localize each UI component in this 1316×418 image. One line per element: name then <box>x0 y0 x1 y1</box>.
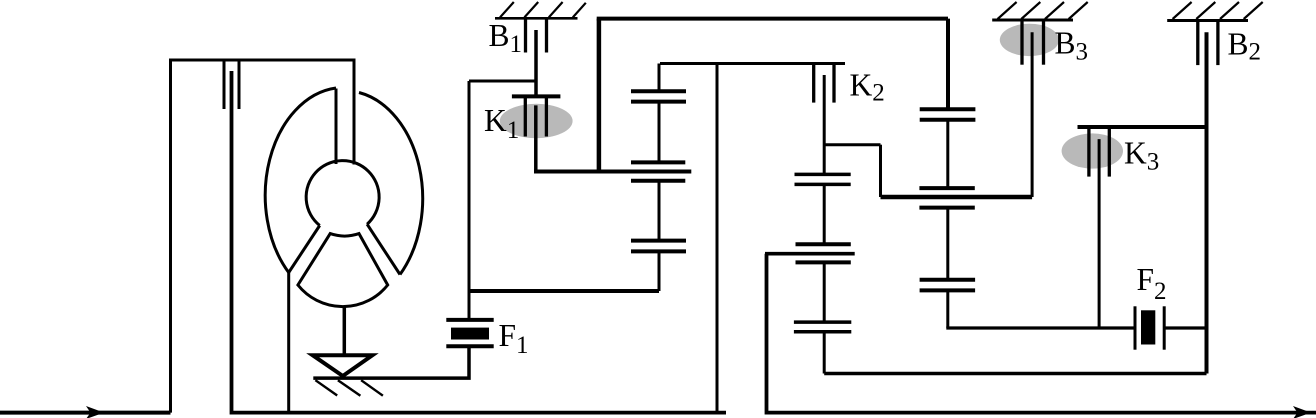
clutch K2 shaft second <box>823 184 826 244</box>
wire F2 line right <box>1164 326 1206 329</box>
clutch K2 shaft lower <box>823 332 826 374</box>
clutch K1 prongs <box>525 96 546 136</box>
planetary trio K2 mid line <box>765 252 855 256</box>
brake B3 shaded ellipse <box>1000 24 1059 56</box>
freewheel F1 top plate <box>446 318 493 322</box>
clutch K2 shaft third <box>823 262 826 322</box>
ground hatching over B1 <box>500 2 586 17</box>
clutch K1 shaded ellipse <box>500 104 573 138</box>
wire F2 line left <box>946 326 1135 329</box>
clutch K3 prongs <box>1089 127 1109 177</box>
gear pair 4 <box>920 109 976 120</box>
wire vertical x717 <box>716 64 719 412</box>
brake B1 prongs <box>526 18 547 53</box>
gear pair 6 <box>920 280 976 291</box>
ground rail under triangle to F1 <box>313 346 469 378</box>
planetary trio 5 bottom line <box>919 206 974 210</box>
planetary trio 2 bottom line <box>631 179 685 183</box>
freewheel F2 right plate <box>1163 306 1166 349</box>
stator shaft <box>343 307 347 355</box>
wire thick vertical x599 <box>597 19 602 172</box>
stator wedge <box>298 234 388 307</box>
brake B1 shaft <box>534 30 538 96</box>
clutch K1 T-bar <box>512 94 561 98</box>
wire left vertical and top horizontal to converter <box>171 60 355 413</box>
gear pair 1 <box>631 91 686 101</box>
wire horizontal y63 to K2 <box>660 62 845 65</box>
freewheel triangle (stator one-way clutch) <box>313 355 373 376</box>
planetary trio 2 top line <box>631 160 685 164</box>
ground hatch line over B1 <box>495 17 578 20</box>
turbine hub circle <box>306 161 379 226</box>
wire shaft x659 third <box>658 181 661 241</box>
brake B2 prongs <box>1198 21 1218 66</box>
clutch K2 shaft upper <box>823 75 826 174</box>
freewheel F1 bottom plate <box>446 344 493 348</box>
clutch K2 prongs <box>814 64 834 103</box>
planetary trio 5 top line <box>919 186 974 190</box>
ground hatching <box>315 380 383 396</box>
wire thick vertical x948 upper <box>946 19 950 110</box>
planetary trio 5 mid line <box>881 195 1033 200</box>
wire shaft x948 lower <box>946 290 949 328</box>
input shaft down to bottom rail <box>232 71 727 413</box>
wire horizontal y145 <box>824 143 880 146</box>
wire shaft x948 third <box>946 208 949 280</box>
wire shaft x659 lower <box>658 251 661 291</box>
wire shaft x948 second <box>946 120 949 188</box>
wire drum horizontal to B1 shaft <box>469 80 536 83</box>
output carrier vertical x765 <box>767 254 1316 413</box>
planetary trio K2 top line <box>796 242 851 246</box>
brake B3 prongs <box>1022 20 1044 65</box>
turbine shaft channel left line <box>335 89 338 165</box>
freewheel F2 left plate <box>1134 306 1137 349</box>
turbine right leg <box>367 224 400 274</box>
wire K1 drum left vertical with F1 shaft <box>468 81 471 320</box>
wire vertical x880 <box>879 145 882 197</box>
gear pair 7 <box>795 174 851 184</box>
ground hatching over B2 <box>1173 2 1263 19</box>
freewheel F2 body <box>1141 310 1155 344</box>
converter pump connection wire down <box>287 273 290 412</box>
freewheel F1 body <box>451 328 489 340</box>
gear pair 3 <box>631 241 686 252</box>
torque converter housing ellipse left arc <box>265 88 336 273</box>
wire horizontal y291 to F1 drum <box>469 289 659 293</box>
wire input bottom-left with arrow <box>0 406 171 418</box>
clutch K1 shaft <box>534 105 538 171</box>
wire top thick horizontal <box>597 17 948 21</box>
ground hatching over B3 <box>998 2 1088 19</box>
wire shaft x659 upper <box>658 64 661 92</box>
wire shaft x659 second <box>658 102 661 163</box>
brake B3 shaft <box>1031 32 1034 197</box>
planetary trio K2 bottom line <box>796 260 851 264</box>
clutch K3 shaft <box>1098 139 1101 328</box>
clutch K3 shaded ellipse <box>1062 133 1123 168</box>
torque converter housing ellipse right arc <box>359 93 423 275</box>
wire horizontal y373 to right column <box>824 372 1206 376</box>
input coupling prongs <box>224 60 239 109</box>
ground hatch line over B3 <box>992 19 1073 22</box>
brake B2 shaft / right vertical <box>1205 32 1209 373</box>
ground hatch line over B2 <box>1167 19 1248 22</box>
turbine left leg <box>289 226 320 273</box>
planetary trio 2 mid line <box>534 170 691 174</box>
clutch K3 T-bar <box>1078 125 1207 129</box>
gear pair 8 <box>794 322 851 332</box>
wire output bottom with arrow <box>1293 406 1311 418</box>
